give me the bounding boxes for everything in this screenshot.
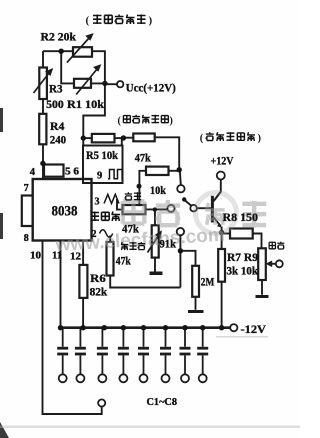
square wave at pin 9 <box>108 170 123 179</box>
wire: collector to +12V terminal <box>214 180 221 201</box>
wire: switch wiper arm <box>185 200 192 206</box>
capacitor C5 <box>138 328 149 383</box>
emitter arrowhead <box>217 223 222 227</box>
junction sine line / 2M tap <box>178 248 183 253</box>
junction blob on square-wave branch <box>137 184 142 189</box>
arrow of 91k <box>148 235 159 252</box>
svg-text:240: 240 <box>50 135 67 147</box>
wire: contact 3 down line <box>179 235 181 287</box>
svg-text:R6: R6 <box>90 273 106 285</box>
capacitor C3 <box>97 328 108 383</box>
junction node C (91k top) <box>153 207 157 211</box>
junction wiper tip <box>182 197 186 201</box>
junction bus / R7 <box>219 325 224 330</box>
svg-text:R3: R3 <box>49 84 63 96</box>
resistor R9 <box>258 248 266 280</box>
terminal +12V <box>217 172 225 180</box>
wire: 47k top right end down to node D <box>155 137 180 170</box>
base bar <box>211 196 214 223</box>
arrow of R1 <box>76 69 97 95</box>
terminal -12V <box>230 324 237 331</box>
wire: pin 12 to R6 and R6 to bus <box>82 241 84 328</box>
wire: node B to 47k top resistor <box>123 137 133 139</box>
wire: sine stub to 47k vertical <box>109 236 111 243</box>
svg-text:11: 11 <box>52 250 62 261</box>
label (波形发生器) <box>86 15 153 27</box>
junction bus / C6 <box>163 325 168 330</box>
wire: 91k stub down <box>154 210 156 226</box>
wire: 47k vertical bottom elbow to contact-3 line <box>110 276 180 288</box>
capacitor C7 <box>180 328 191 383</box>
svg-text:8038: 8038 <box>52 204 78 220</box>
terminal output <box>276 260 283 267</box>
junction bus / pin 11 <box>58 325 63 330</box>
junction node B (R5/47k, pin 9) <box>121 135 126 140</box>
svg-text:): ) <box>170 115 173 126</box>
ground symbols <box>150 272 269 314</box>
svg-text:3k 10k: 3k 10k <box>227 266 259 278</box>
emitter lead <box>214 217 221 226</box>
resistor 10k between pins 4-5 <box>44 165 64 177</box>
svg-text:R7 R9: R7 R9 <box>227 252 258 264</box>
svg-text:82k: 82k <box>90 287 108 299</box>
wire: R9 bottom to ground <box>261 280 263 295</box>
svg-text:): ) <box>258 133 262 144</box>
label square wave (dark) <box>125 192 133 200</box>
wire: elbow to 2M top <box>180 251 195 266</box>
sine wave at pin 2 <box>100 230 113 238</box>
capacitor C2 <box>75 328 86 383</box>
svg-text:R1 10k: R1 10k <box>67 99 105 111</box>
svg-text:5 6: 5 6 <box>65 167 79 178</box>
wire: 2M bottom to ground <box>195 297 197 310</box>
svg-text:): ) <box>149 15 153 27</box>
junction bus / C3 <box>102 325 107 330</box>
svg-text:7: 7 <box>24 183 29 194</box>
wire: R3 to R4 <box>42 99 44 114</box>
wire: 47k mid left end elbow down <box>139 171 146 205</box>
pot arrows <box>34 35 161 253</box>
junction emitter node <box>219 230 224 235</box>
IC annex box (pin 9 / waveform box) <box>83 146 123 184</box>
CJK labels <box>86 15 285 251</box>
plug circle bottom <box>98 399 105 406</box>
svg-text:91k: 91k <box>160 239 177 251</box>
junction bus / C7 <box>182 325 187 330</box>
junction node A (R5 left) <box>81 135 86 140</box>
svg-text:R4: R4 <box>50 121 65 133</box>
junction bus / C4 <box>121 325 126 330</box>
svg-text:3: 3 <box>95 197 100 208</box>
wire: node D down to contact 1 <box>180 170 181 185</box>
svg-text:Ucc(+12V): Ucc(+12V) <box>126 80 176 94</box>
label triangle wave <box>91 212 100 222</box>
wire: pin 10 long loop to plug <box>43 242 102 415</box>
wire: left vertical chain (R3/R4 column) <box>42 51 44 67</box>
wire: R1 right stub and Ucc feed <box>91 82 117 85</box>
resistor 47k lower <box>123 205 146 214</box>
resistor box at pins 7-8 <box>22 196 33 227</box>
resistor R7 <box>218 249 225 282</box>
svg-text:9: 9 <box>97 171 102 182</box>
capacitor C6 <box>160 328 171 383</box>
switch wiper pivot <box>190 205 197 212</box>
capacitor C8 <box>197 328 208 383</box>
junction pin 4 node <box>40 161 45 166</box>
resistor 91k (pot) <box>152 225 159 257</box>
labels (latin) <box>24 31 267 408</box>
transistor Q1 <box>212 192 221 228</box>
resistor R4 <box>39 114 46 145</box>
wire: R4 to pin4 junction and pin 4 stub <box>42 144 44 179</box>
resistor R2 (pot) <box>73 47 92 57</box>
resistor 47k top <box>133 134 154 142</box>
switch contact 1 <box>177 185 184 192</box>
svg-text:C1~C8: C1~C8 <box>147 397 178 408</box>
wire: R5 left stub <box>83 137 92 139</box>
junction node D (47k/47k) <box>177 167 182 172</box>
svg-text:10: 10 <box>30 250 41 261</box>
svg-text:2: 2 <box>92 229 97 240</box>
svg-text:12: 12 <box>70 252 81 263</box>
arrow of R3 <box>34 73 50 93</box>
wire: 91k bottom to ground <box>154 258 156 272</box>
capacitor C1 <box>57 328 68 383</box>
arrow of R2 <box>67 38 90 63</box>
svg-text:R5 10k: R5 10k <box>86 150 119 162</box>
svg-text:4: 4 <box>30 167 36 178</box>
resistor 47k vertical <box>107 242 114 276</box>
svg-text:(: ( <box>86 15 90 27</box>
watermark <box>123 193 266 234</box>
label (缓冲放大器) <box>200 133 262 144</box>
svg-text:+12V: +12V <box>211 154 234 168</box>
resistor R5 <box>92 134 115 143</box>
resistor R8 <box>230 229 253 239</box>
terminal Ucc <box>117 81 123 87</box>
label sine wave <box>121 242 128 250</box>
wire: top horizontal from left chain to R2 <box>43 50 73 52</box>
resistor 2M <box>192 266 199 297</box>
wire: R5 right to node B <box>115 137 124 139</box>
ground under 91k <box>150 272 163 276</box>
wire: wiper pivot to transistor base <box>197 207 212 209</box>
svg-text:2M: 2M <box>201 276 215 288</box>
label (均衡衰减器) <box>118 115 173 126</box>
wire: 47k lower right end to contact 2 <box>146 208 168 210</box>
wire: R7 bottom to bus <box>221 282 223 328</box>
terminal circles <box>98 81 283 407</box>
junction bus / R6 <box>80 325 85 330</box>
svg-text:47k: 47k <box>135 152 152 164</box>
svg-text:(: ( <box>118 115 122 126</box>
svg-text:500: 500 <box>46 99 64 111</box>
wire: emitter node down to R7 <box>221 227 223 250</box>
IC 8038 main box <box>33 179 92 241</box>
resistor R1 (pot) <box>74 79 91 88</box>
resistor 47k middle <box>146 167 169 175</box>
wire: pots left vertical <box>61 51 74 83</box>
wire: -12V bus <box>61 326 231 329</box>
junction pots left / R3 chain <box>59 49 64 54</box>
waveform symbols <box>100 170 124 238</box>
scan edge artifacts <box>0 108 9 438</box>
svg-text:(: ( <box>200 133 204 144</box>
svg-text:8: 8 <box>24 233 29 244</box>
ground under 2M <box>188 310 204 313</box>
label output <box>269 242 275 249</box>
wire: emitter node to R8 <box>222 233 230 235</box>
wire: node B stub down to annex <box>121 138 123 145</box>
svg-text:47k: 47k <box>122 223 140 235</box>
capacitor C4 <box>118 328 129 383</box>
svg-text:-12V: -12V <box>241 322 267 336</box>
wire: pin 11 down to bus <box>60 242 62 328</box>
wire: R2 right to right vertical <box>83 51 105 145</box>
resistor R3 (pot) <box>39 68 47 100</box>
svg-text:47k: 47k <box>116 256 131 268</box>
wire: output line <box>268 263 276 265</box>
svg-text:R2 20k: R2 20k <box>41 31 77 43</box>
wire: R8 right elbow down to R9 <box>253 234 262 249</box>
svg-text:R8 150: R8 150 <box>223 212 259 224</box>
switch contact 2 <box>167 205 174 212</box>
svg-text:10k: 10k <box>150 185 167 197</box>
resistor R6 <box>79 265 87 298</box>
junction bus / C5 <box>141 325 146 330</box>
ground under R9 <box>256 295 269 298</box>
switch contact 3 <box>177 228 184 235</box>
output arrowhead <box>265 261 272 268</box>
capacitors C1~C8 <box>57 328 208 383</box>
junction R1 right / Ucc node <box>102 81 107 86</box>
triangle wave at pin 3 <box>104 194 119 203</box>
collector lead <box>214 192 221 201</box>
wire: pin3 elbow to 47k lower resistor <box>117 199 123 210</box>
wire: 47k mid right end to node D <box>169 170 180 172</box>
junction bus / C8 <box>200 325 205 330</box>
